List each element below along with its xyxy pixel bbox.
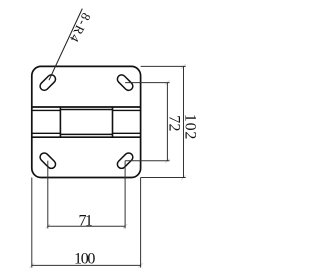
central boss bottom edge: [60, 133, 112, 135]
dimension line 71: [48, 225, 125, 227]
band inner line top-left: [32, 109, 61, 111]
plate outline: [32, 66, 141, 177]
slot bottom-right: [116, 151, 135, 170]
dimension line 100: [32, 264, 141, 266]
band inner line bottom-left: [32, 132, 61, 134]
tick marks at dimension junctions: [30, 64, 186, 267]
svg-text:71: 71: [79, 212, 93, 229]
central boss left edge: [59, 107, 61, 137]
central boss top edge: [60, 109, 112, 111]
svg-text:72: 72: [165, 115, 182, 131]
svg-text:102: 102: [182, 114, 199, 140]
central boss right edge: [112, 107, 114, 137]
extension line plate left edge (vertical): [31, 178, 33, 268]
extension line from bottom-right slot (horizontal): [125, 160, 170, 162]
dimension line 72: [166, 83, 168, 161]
slot top-left: [38, 73, 57, 92]
extension line plate bottom edge: [141, 177, 186, 179]
extension line plate right edge (vertical): [140, 178, 142, 268]
dimension line 102: [183, 66, 185, 177]
extension line from bottom-left slot (vertical): [47, 161, 49, 229]
band inner line bottom-right: [113, 132, 141, 134]
band top outer line: [32, 106, 141, 108]
slot bottom-left: [38, 151, 57, 170]
slot top-right: [116, 73, 135, 92]
extension line from top-right slot: [125, 82, 170, 84]
extension line from bottom-right slot (vertical): [124, 161, 126, 229]
leader line 8-R4: [49, 9, 82, 81]
band inner line top-right: [113, 109, 141, 111]
extension line plate top edge: [141, 65, 186, 67]
band bottom outer line: [32, 136, 141, 138]
svg-text:100: 100: [74, 251, 95, 268]
